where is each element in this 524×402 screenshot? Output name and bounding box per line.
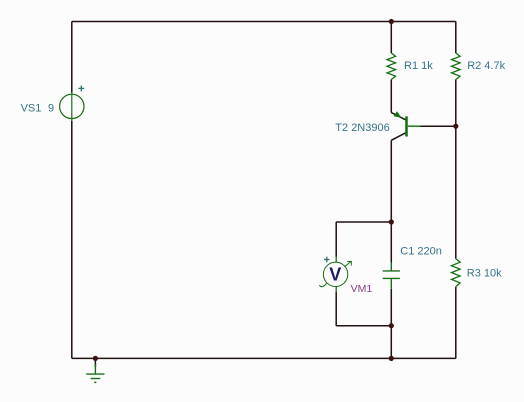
wire transistor collector down — [390, 140, 392, 262]
svg-text:VS1: VS1 — [21, 103, 42, 115]
wire ground stub — [94, 358, 96, 367]
node VM bottom junction — [389, 323, 394, 328]
resistor R1 — [387, 53, 396, 80]
wire left vertical upper — [71, 22, 73, 93]
svg-text:T2 2N3906: T2 2N3906 — [335, 122, 389, 134]
wire VM branch top horizontal — [336, 221, 391, 223]
svg-text:R3 10k: R3 10k — [467, 267, 502, 279]
wire middle top lead to R1 — [390, 22, 392, 54]
node base junction — [453, 124, 458, 129]
transistor T2 base bar — [405, 116, 408, 136]
node ground junction — [93, 356, 98, 361]
svg-text:V: V — [329, 265, 341, 285]
wire right vertical upper lead to R2 — [455, 22, 457, 54]
wire right vertical R2 to R3 — [455, 80, 457, 259]
voltage source VS1 — [60, 93, 84, 122]
wire base to right junction — [421, 125, 456, 127]
svg-text:R1 1k: R1 1k — [404, 60, 433, 72]
node VM top junction — [389, 219, 394, 224]
ground — [86, 364, 104, 382]
wire R1 to transistor emitter — [390, 80, 392, 113]
capacitor C1 — [383, 263, 400, 289]
svg-text:9: 9 — [48, 103, 54, 115]
wire right vertical below R3 — [455, 287, 457, 359]
wire transistor emitter diagonal — [391, 113, 405, 120]
svg-text:VM1: VM1 — [351, 283, 373, 295]
wire transistor collector diagonal — [391, 133, 405, 141]
wire bottom rail — [72, 357, 456, 359]
resistor R2 — [452, 53, 461, 80]
wire left vertical lower — [71, 121, 73, 358]
svg-text:C1 220n: C1 220n — [400, 245, 442, 257]
wire VM branch left vertical lower — [335, 292, 337, 326]
node bottom middle junction — [389, 356, 394, 361]
wire VM branch left vertical upper — [335, 222, 337, 257]
resistor R3 — [452, 259, 461, 287]
svg-text:R2 4.7k: R2 4.7k — [467, 60, 505, 72]
transistor T2 emitter arrow — [394, 111, 402, 117]
voltmeter VM1 — [319, 257, 351, 293]
wire top rail — [72, 21, 456, 23]
wire capacitor to bottom rail — [390, 289, 392, 359]
transistor T2 base lead — [408, 125, 421, 127]
wire VM branch bottom horizontal — [336, 325, 391, 327]
node top junction — [389, 19, 394, 24]
